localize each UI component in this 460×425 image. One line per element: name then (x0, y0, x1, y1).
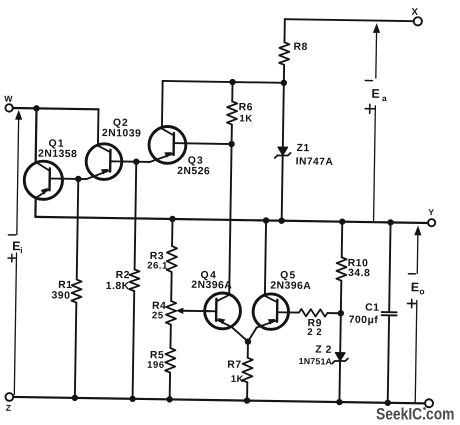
svg-text:1K: 1K (239, 113, 252, 124)
resistor R7 (242, 342, 253, 401)
svg-text:Z1: Z1 (297, 143, 310, 154)
wire Y bus (35, 217, 428, 223)
label R5 196 (147, 350, 165, 371)
node R5 bottom (166, 396, 172, 402)
svg-text:E: E (411, 280, 420, 294)
wire Q4 emitter to junction (231, 327, 248, 342)
label Q3 2N526 (177, 155, 210, 177)
label R4 25 (152, 301, 167, 322)
node Q3 base junction (228, 141, 234, 147)
svg-text:25: 25 (152, 310, 164, 321)
resistor R8 (279, 19, 290, 83)
label C1 700uf (349, 302, 380, 326)
capacitor C1 (380, 222, 398, 403)
terminal Y (428, 207, 435, 226)
transistor Q3 (149, 126, 186, 163)
svg-text:1K: 1K (231, 374, 244, 385)
svg-text:2N526: 2N526 (177, 166, 210, 178)
wire Q1 emitter to Y bus (34, 198, 36, 217)
svg-text:2N1358: 2N1358 (38, 149, 78, 161)
watermark SeekIC.com (376, 406, 455, 424)
svg-text:Y: Y (428, 207, 434, 217)
wire Q2 base junction to Q3 emitter (136, 161, 149, 163)
label R6 1K (238, 102, 253, 125)
label Q2 2N1039 (102, 118, 142, 140)
resistor R5 (165, 348, 175, 373)
svg-text:IN747A: IN747A (296, 156, 334, 168)
label Q1 2N1358 (38, 138, 78, 160)
svg-text:34.8: 34.8 (348, 268, 370, 279)
resistor R10 (336, 222, 347, 314)
wire Q5 collector lead (265, 220, 266, 295)
svg-text:26.1: 26.1 (147, 260, 168, 271)
label R2 1.8K (106, 270, 130, 292)
svg-text:1.8K: 1.8K (106, 281, 130, 292)
node R9 R10 junction (338, 310, 344, 316)
wire Q2 collector lead (97, 109, 100, 145)
node R1 top junction (75, 176, 81, 182)
wire Q2 base to R2 (122, 160, 136, 162)
svg-text:700μf: 700μf (349, 315, 379, 326)
node R10 top (339, 218, 345, 224)
wire W to Q2 collector drop (13, 108, 99, 109)
svg-text:R6: R6 (239, 102, 253, 113)
resistor R6 (227, 82, 238, 144)
svg-text:R8: R8 (294, 42, 308, 53)
node R2 bottom (129, 396, 135, 402)
node R3 top (169, 216, 175, 222)
wire R3-R4 (170, 272, 172, 301)
svg-text:SeekIC.com: SeekIC.com (376, 406, 455, 424)
wire R4-R5 (169, 325, 171, 348)
svg-text:a: a (382, 93, 387, 103)
wire R1 lower (75, 303, 76, 398)
node R1 bottom (72, 395, 78, 401)
node R6 top (229, 79, 235, 85)
transistor Q2 (86, 144, 122, 180)
label Ei (12, 239, 23, 255)
label R1 390 (51, 280, 72, 302)
transistor Q4 (204, 293, 240, 329)
label Ea (371, 87, 387, 103)
svg-text:C1: C1 (365, 303, 379, 314)
terminal Z (5, 393, 13, 413)
svg-text:E: E (371, 87, 380, 101)
svg-text:Z 2: Z 2 (315, 345, 332, 356)
node Q2 base junction (133, 158, 139, 164)
wire Q3 collector lead (161, 81, 164, 127)
terminal X (411, 7, 422, 26)
svg-text:196: 196 (147, 360, 165, 371)
wire Q1 collector lead (35, 108, 38, 163)
svg-text:W: W (4, 94, 13, 104)
wire R3 upper (171, 219, 173, 246)
svg-text:2 2: 2 2 (307, 327, 322, 338)
wire bottom bus (13, 397, 425, 403)
transistor Q1 (24, 161, 63, 200)
terminal W (4, 94, 13, 112)
potentiometer R4 (166, 301, 176, 325)
svg-text:2N396A: 2N396A (191, 280, 232, 292)
svg-text:2N1039: 2N1039 (102, 128, 142, 140)
svg-text:Z: Z (6, 403, 11, 413)
wiper arrow R4 to Q4 base (176, 307, 210, 314)
node R8 bottom (281, 80, 287, 86)
label R3 26.1 (147, 251, 168, 272)
svg-text:i: i (20, 245, 23, 255)
label R7 1K (227, 360, 244, 386)
node W junction (33, 105, 39, 111)
node emitter junction (245, 338, 251, 344)
svg-text:o: o (419, 286, 424, 296)
label Q4 2N396A (191, 270, 232, 291)
wire R5 lower (169, 373, 171, 400)
node Z2 bottom (336, 399, 342, 405)
label Eo (411, 280, 425, 296)
label Z1 IN747A (296, 143, 334, 168)
label R9 22 (307, 318, 322, 338)
wire Q1 base to R1/Q2 emitter (63, 178, 86, 180)
node C1 top (387, 219, 393, 225)
wire R1 upper (77, 179, 79, 280)
svg-text:2N396A: 2N396A (270, 280, 311, 292)
wire collector rail (163, 81, 284, 83)
resistor R1 (71, 280, 81, 303)
node Z1 bottom (278, 217, 284, 223)
resistor R2 (129, 269, 139, 291)
svg-text:R1: R1 (58, 280, 72, 291)
node R7 bottom (244, 397, 250, 403)
wire R2 lower (133, 291, 135, 399)
label R10 34.8 (347, 258, 370, 279)
svg-text:X: X (411, 7, 418, 18)
measurement arrow Eo (406, 225, 422, 403)
wire Q3 base to R6 junction (186, 142, 232, 145)
label Q5 2N396A (270, 270, 311, 292)
svg-text:R7: R7 (227, 360, 241, 371)
resistor R9 (288, 309, 341, 317)
resistor R3 (167, 246, 177, 272)
svg-text:390: 390 (51, 290, 70, 301)
wire R2 upper (135, 162, 137, 270)
label Z2 1N751A (299, 344, 333, 366)
node Q5 collector top (263, 217, 269, 223)
zener Z2 (332, 313, 349, 402)
node C1 bottom (384, 400, 390, 406)
wire Q5 emitter to junction (248, 327, 257, 341)
wire to terminal X (285, 19, 414, 21)
svg-text:1N751A: 1N751A (299, 356, 333, 367)
svg-text:R2: R2 (116, 270, 130, 281)
measurement arrow Ei (6, 110, 22, 395)
label R8 (294, 42, 308, 53)
zener Z1 (274, 83, 292, 221)
measurement arrow Ea (363, 23, 380, 222)
wire R6 junction down to Q4 collector (229, 144, 231, 294)
transistor Q5 (253, 294, 289, 330)
terminal bottom-right (425, 399, 433, 407)
